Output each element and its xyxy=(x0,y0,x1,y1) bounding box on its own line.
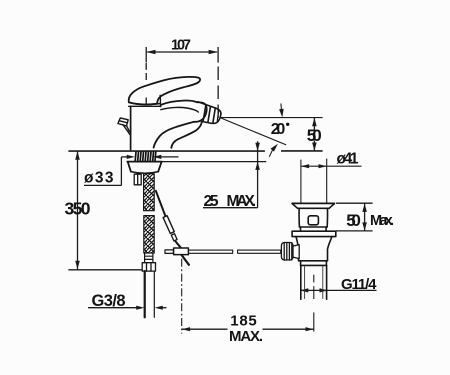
square hole xyxy=(308,216,318,225)
faucet silhouette white fill xyxy=(131,100,222,150)
svg-text:185: 185 xyxy=(230,312,257,329)
svg-text:MAX.: MAX. xyxy=(227,193,257,210)
clamp block xyxy=(174,248,189,255)
mounting nut flange xyxy=(127,162,162,174)
svg-text:Max.: Max. xyxy=(370,213,394,229)
braided hose lower segment xyxy=(144,216,154,253)
threaded shank hatching xyxy=(135,152,156,161)
knurled knob xyxy=(281,243,293,261)
clamp left stub xyxy=(165,250,174,254)
body step xyxy=(300,226,327,228)
horizontal rod segment 2 xyxy=(238,250,281,253)
pop-up rod lower xyxy=(176,242,181,248)
20 degree lines xyxy=(221,103,323,156)
rod tail below clamp xyxy=(182,255,189,265)
drain upper body xyxy=(298,208,300,227)
dimension 50 Max drain xyxy=(336,203,373,231)
faucet handle lever xyxy=(129,77,200,105)
svg-text:ø41: ø41 xyxy=(337,150,359,167)
horizontal rod segment 1 xyxy=(189,250,233,253)
svg-text:MAX.: MAX. xyxy=(229,328,263,345)
dimension 350 xyxy=(68,151,143,269)
svg-text:25: 25 xyxy=(204,193,219,210)
lower flange xyxy=(292,231,336,236)
svg-text:350: 350 xyxy=(65,198,91,218)
supply tube xyxy=(145,271,155,317)
body below flange xyxy=(296,237,299,261)
25 MAX leader xyxy=(203,141,260,207)
pop-up rod upper xyxy=(156,191,166,217)
dashed extension right xyxy=(217,67,219,81)
svg-text:50: 50 xyxy=(307,126,322,145)
cap bottom line xyxy=(129,105,161,107)
drain top flange xyxy=(292,202,334,204)
dimension 107 xyxy=(146,47,218,63)
svg-text:20: 20 xyxy=(271,121,286,138)
body left edge xyxy=(130,106,132,149)
handle neck edge xyxy=(159,95,161,104)
svg-text:G11/4: G11/4 xyxy=(341,276,377,293)
rod sleeve xyxy=(163,216,174,234)
hex nut xyxy=(142,263,155,271)
svg-text:50: 50 xyxy=(346,211,361,230)
tailpiece stub xyxy=(134,174,141,185)
dimension 185 MAX xyxy=(182,259,314,334)
drain body band xyxy=(299,260,327,262)
knob stem xyxy=(293,245,299,259)
deck line xyxy=(68,150,322,152)
rod collar xyxy=(171,234,177,241)
G3/8 leader xyxy=(88,306,167,310)
svg-text:G3/8: G3/8 xyxy=(92,292,126,310)
aerator xyxy=(198,102,221,124)
svg-text:107: 107 xyxy=(171,37,191,53)
cap top line xyxy=(129,103,161,105)
braided hose upper segment xyxy=(144,174,155,211)
nut-top reference line xyxy=(127,161,266,163)
G11/4 dimension xyxy=(300,288,376,292)
dia 41 dimension xyxy=(301,159,362,203)
hose crimp collar xyxy=(145,253,153,263)
tail pipe xyxy=(300,265,302,299)
body outer rear curve xyxy=(171,122,202,148)
dashed extension left xyxy=(145,63,147,70)
svg-text:ø33: ø33 xyxy=(84,170,114,187)
spout top and nose face and front crease xyxy=(154,101,207,148)
dia 33 leader xyxy=(84,155,179,186)
pop-up knob xyxy=(118,118,130,135)
spout top inner line xyxy=(161,107,199,112)
dimension 50 spout height xyxy=(312,118,317,151)
